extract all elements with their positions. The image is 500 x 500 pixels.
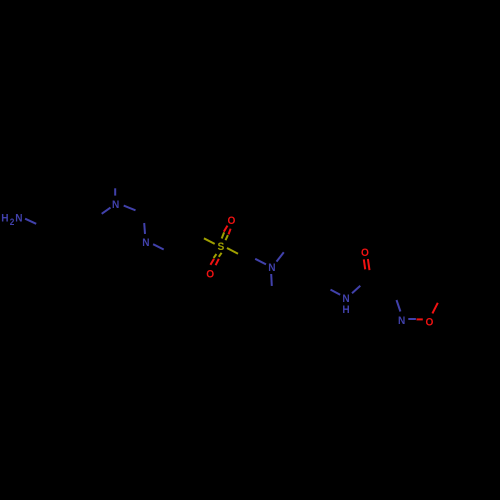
wire bond N1-CH3 half bbox=[114, 188, 116, 195]
wire bond S=O lower line1 S half bbox=[214, 254, 217, 258]
wire bond C-NH half bbox=[331, 290, 341, 295]
svg-text:H: H bbox=[342, 304, 349, 316]
wire bond S=O lower line2 O half bbox=[216, 259, 219, 265]
wire bond C-N2 half bbox=[143, 223, 146, 234]
wire bond C7=O line2 O half bbox=[368, 259, 370, 270]
wire bond C-N1 half bbox=[102, 208, 111, 214]
wire bond S=O lower line2 S half bbox=[219, 253, 222, 257]
wire bond N4-O half blue bbox=[408, 318, 416, 320]
wire bond S-C half right bbox=[227, 248, 238, 254]
wire bond S=O upper line2 O half bbox=[229, 229, 231, 235]
svg-text:N: N bbox=[268, 262, 275, 274]
wire bond O-C5' half bbox=[432, 303, 437, 314]
wire bond S=O upper line2 S half bbox=[226, 235, 228, 240]
wire bond N3-C half upright bbox=[277, 252, 284, 261]
wire bond N3-C half down bbox=[270, 274, 273, 286]
wire bond S=O upper line1 S half bbox=[222, 232, 224, 238]
wire bond C-S half left bbox=[204, 238, 215, 244]
wire bond N4-O half red bbox=[417, 318, 423, 320]
svg-text:S: S bbox=[218, 241, 225, 253]
wire bond C3'=N4 half bbox=[397, 300, 401, 312]
svg-text:N: N bbox=[112, 199, 119, 211]
wire bond N2-C half bbox=[153, 244, 164, 249]
svg-text:H: H bbox=[1, 213, 8, 225]
wire bond C7=O line1 O half bbox=[364, 259, 365, 269]
svg-text:O: O bbox=[206, 268, 214, 280]
svg-text:O: O bbox=[425, 316, 433, 328]
wire bond N1-C half bbox=[124, 206, 136, 211]
svg-text:N: N bbox=[142, 237, 149, 249]
wire bond S=O upper line1 O half bbox=[224, 226, 228, 232]
wire bond H2N-C half bbox=[25, 219, 36, 224]
svg-text:2: 2 bbox=[10, 217, 15, 227]
svg-text:O: O bbox=[361, 247, 369, 259]
svg-text:N: N bbox=[15, 213, 22, 225]
svg-text:O: O bbox=[228, 215, 236, 227]
wire bond NH-C7 half bbox=[352, 286, 360, 294]
wire bond S=O lower line1 O half bbox=[210, 259, 214, 265]
svg-text:N: N bbox=[398, 315, 405, 327]
wire bond C-N3 half bbox=[255, 259, 266, 265]
